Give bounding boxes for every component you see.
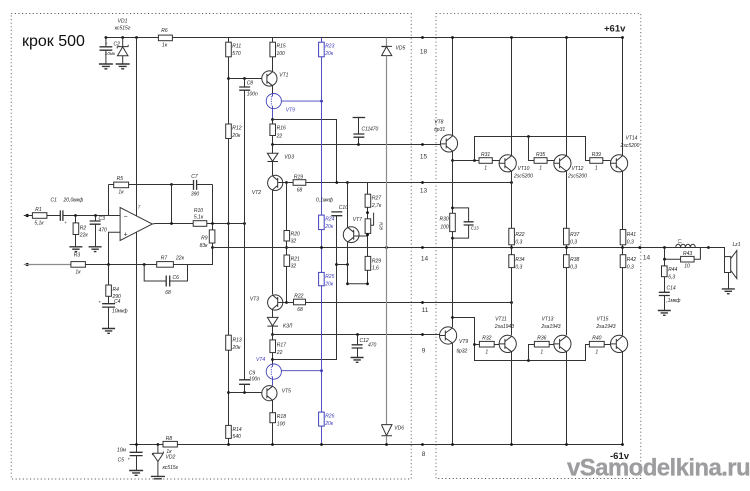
resistor R6 1к (horizontal, in +supply feed) [158, 35, 172, 41]
resistor R25 20к (blue) [319, 272, 325, 285]
svg-text:R7: R7 [161, 255, 168, 261]
svg-text:20,0мкф: 20,0мкф [63, 198, 85, 204]
speaker Lz1 [709, 248, 725, 257]
svg-text:570: 570 [232, 51, 241, 57]
resistor R35 1 [534, 158, 547, 164]
node: left end of output rail / R9 bottom [211, 246, 214, 249]
ground under speaker [722, 289, 735, 294]
svg-text:100: 100 [277, 421, 286, 427]
wire: row 9 (to VT9 tip32 base) [273, 334, 440, 336]
diode VD5 [386, 38, 388, 47]
svg-text:VT14: VT14 [626, 136, 638, 142]
transistor VT5 [262, 386, 277, 401]
transistor VT15 2sa1943 [611, 335, 628, 352]
resistor R22 0,3 [509, 228, 515, 245]
wire: C5 top lead [136, 445, 138, 453]
svg-text:R21: R21 [291, 256, 300, 262]
svg-text:10мкф: 10мкф [112, 309, 128, 315]
resistor R34 0,3 [511, 248, 513, 255]
svg-text:VT8: VT8 [434, 119, 443, 125]
resistor R43 10 (parallel with coil) [665, 248, 701, 260]
svg-text:R36: R36 [537, 336, 546, 342]
svg-text:C14: C14 [667, 285, 676, 291]
svg-text:R22: R22 [294, 294, 303, 300]
svg-text:2sc5200: 2sc5200 [513, 174, 533, 180]
wire: upper base-drive bus [453, 160, 480, 162]
resistor R23 20к (blue) [321, 38, 323, 43]
wire: op-amp output [152, 223, 193, 226]
node: C6 branch junction [143, 263, 146, 266]
svg-text:9: 9 [422, 348, 426, 355]
capacitor C3 470 (to ground) [95, 216, 97, 221]
svg-text:R15: R15 [277, 44, 286, 50]
capacitor C10 0,1мкф [336, 211, 338, 213]
ground under C5 [129, 471, 143, 476]
resistor R19 68 (row 13 feed) [287, 182, 294, 184]
ground under R2 [69, 247, 82, 252]
svg-text:R25: R25 [325, 274, 334, 280]
ground under C14 [658, 311, 671, 316]
transistor VT8 tip31 (upper driver) [452, 38, 454, 136]
capacitor C6 68 (parallel with R7) [144, 265, 187, 282]
resistor R5 1к (feedback) [109, 184, 172, 186]
svg-text:tip31: tip31 [434, 127, 445, 133]
nodes on output wire [170, 222, 173, 225]
svg-text:C10: C10 [339, 205, 348, 211]
svg-text:2sa1943: 2sa1943 [540, 324, 560, 330]
svg-text:R5: R5 [117, 176, 124, 182]
capacitor C12 470 (to ground) [357, 335, 359, 345]
svg-text:C3: C3 [99, 216, 106, 222]
ground under C3 [89, 247, 102, 252]
node: VT1 base junction [227, 77, 230, 80]
svg-text:5,1к: 5,1к [34, 220, 44, 226]
resistor R32 1 [479, 341, 494, 347]
wire: VT1 base [229, 78, 262, 80]
wire: row 15 (to VT8 base) [273, 144, 441, 146]
svg-text:VD1: VD1 [118, 19, 128, 25]
resistor R14 540 [226, 425, 232, 438]
svg-text:R2: R2 [80, 225, 87, 231]
trimmer R28 [365, 219, 371, 234]
svg-text:1: 1 [595, 349, 598, 355]
wire: from R17 node right to C10 column [273, 265, 337, 360]
node: + input junction [107, 263, 110, 266]
svg-text:R42: R42 [627, 257, 636, 263]
svg-text:22: 22 [276, 134, 283, 140]
transistor VT9 (blue, second channel) [266, 94, 281, 109]
resistor R41 0,3 [620, 230, 626, 245]
wire: -61v bottom rail (row 8) [130, 444, 623, 446]
svg-text:R43: R43 [683, 251, 692, 257]
svg-text:VD2: VD2 [166, 455, 176, 461]
transistor VT12 2sc5200 [566, 38, 568, 156]
wire: VT5 base from R13/R14 tap through C9 [229, 392, 262, 394]
resistor R37 0,3 [564, 228, 570, 245]
capacitor C11 470 (bootstrap) [353, 117, 366, 119]
svg-text:+: + [64, 220, 67, 225]
svg-text:R8: R8 [166, 436, 173, 442]
resistor R9 83к (down to output rail) [212, 224, 214, 230]
svg-text:68: 68 [165, 290, 171, 296]
ground under C2 [99, 64, 113, 69]
resistor R16 22 [272, 120, 274, 125]
svg-text:C4: C4 [114, 299, 121, 305]
resistor R12 20к [226, 124, 232, 139]
svg-text:VD3: VD3 [284, 154, 294, 160]
svg-text:R6: R6 [161, 28, 168, 34]
resistor R44 6,3 (Zobel) [664, 259, 666, 266]
svg-text:20к: 20к [324, 224, 334, 230]
svg-text:R16: R16 [277, 126, 286, 132]
diode КЗЛ [267, 317, 278, 326]
svg-text:vSamodelkina.ru: vSamodelkina.ru [567, 455, 750, 482]
svg-text:100n: 100n [247, 91, 258, 97]
wire: feedback riser from inverting input [108, 185, 110, 216]
resistor R26 20к (blue) [319, 412, 325, 426]
svg-text:0,3: 0,3 [570, 265, 577, 271]
svg-text:1: 1 [484, 166, 487, 172]
node: VT9 emitter / R16 top [271, 118, 274, 121]
svg-text:C7: C7 [191, 174, 198, 180]
svg-text:10: 10 [684, 264, 690, 270]
svg-text:−: − [124, 213, 128, 220]
output stage dashed enclosure (right box) [436, 14, 641, 479]
svg-text:2sc5200: 2sc5200 [567, 174, 587, 180]
svg-text:R18: R18 [277, 414, 286, 420]
svg-text:1: 1 [485, 349, 488, 355]
svg-text:VD5: VD5 [396, 45, 406, 51]
svg-text:R3: R3 [74, 253, 81, 259]
resistor R42 0,3 [622, 248, 624, 255]
wire: VT7 collector from row 13 [347, 183, 349, 228]
resistor R27 2,7к [348, 183, 368, 195]
svg-text:22к: 22к [175, 255, 185, 261]
svg-text:1: 1 [540, 349, 543, 355]
svg-text:1: 1 [539, 166, 542, 172]
svg-text:14: 14 [643, 255, 651, 262]
svg-text:VT3: VT3 [250, 296, 259, 302]
svg-text:83к: 83к [200, 243, 209, 249]
svg-text:390: 390 [191, 191, 200, 197]
svg-text:R30: R30 [440, 216, 449, 222]
svg-text:R37: R37 [570, 232, 579, 238]
resistor R4 290 (from + input node down) [108, 265, 110, 286]
svg-text:1,6: 1,6 [372, 266, 379, 272]
transistor VT2 [268, 175, 283, 190]
svg-text:+61v: +61v [604, 24, 626, 35]
svg-text:20к: 20к [324, 51, 334, 57]
wire: bootstrap from VT9 emitter to C10 column [273, 120, 337, 183]
svg-text:VT4: VT4 [256, 357, 265, 363]
wire: op-amp +supply column (pin 7) [136, 38, 138, 217]
svg-text:20к: 20к [232, 345, 242, 351]
transistor VT7 (bias multiplier) [343, 227, 359, 243]
svg-text:2sa1943: 2sa1943 [494, 324, 514, 330]
svg-text:VT7: VT7 [353, 217, 362, 223]
svg-text:R10: R10 [194, 208, 203, 214]
svg-text:20к: 20к [231, 133, 241, 139]
wire: +61v top rail (row 18) [106, 37, 623, 39]
svg-text:68: 68 [297, 187, 303, 193]
wire: row 14 main output rail [213, 247, 709, 249]
svg-text:0,3: 0,3 [515, 265, 522, 271]
svg-text:R12: R12 [232, 126, 241, 132]
resistor R39 1 [590, 158, 603, 164]
transistor VT1 [262, 71, 277, 86]
input terminal IN (upper) [26, 214, 29, 217]
wire: C10 column to VT7 emitter net [336, 216, 338, 265]
resistor R10 5,1к (series from op-amp output) [193, 221, 207, 227]
svg-text:R40: R40 [592, 336, 601, 342]
node: VT5 base tap [227, 391, 230, 394]
svg-text:C8: C8 [247, 80, 254, 86]
svg-text:VT11: VT11 [495, 316, 507, 322]
svg-text:VT9: VT9 [459, 339, 468, 345]
svg-text:VT9: VT9 [286, 107, 295, 113]
resistor R22 68 (row 11 feed) [287, 302, 294, 304]
wire: row 13 [306, 182, 512, 184]
svg-text:C6: C6 [173, 275, 180, 281]
node: VT9 emitter tap [451, 316, 454, 319]
svg-text:C5: C5 [118, 458, 125, 464]
resistor R20 32 [284, 231, 290, 242]
svg-text:VD6: VD6 [394, 426, 404, 432]
zener VD2 кс515г (on negative supply) [157, 443, 160, 446]
svg-text:tip32: tip32 [457, 348, 468, 354]
node: output rail exits right box [638, 246, 641, 249]
node: R17 bottom / VT4 collector / VT7 net [271, 358, 274, 361]
svg-text:0,1мкф: 0,1мкф [316, 198, 334, 204]
svg-text:R23: R23 [325, 44, 334, 50]
svg-text:5,1к: 5,1к [194, 215, 204, 221]
svg-text:VT13: VT13 [542, 316, 554, 322]
ground under VD2 [151, 476, 165, 478]
resistor R2 22к (to ground) [75, 216, 77, 223]
svg-text:кс515г: кс515г [115, 26, 131, 32]
svg-text:2sc5200: 2sc5200 [620, 143, 640, 149]
svg-text:VT10: VT10 [518, 166, 530, 172]
svg-text:1к: 1к [166, 449, 172, 455]
svg-text:R13: R13 [233, 338, 242, 344]
svg-text:11: 11 [422, 307, 429, 314]
svg-text:+: + [98, 300, 101, 305]
node: VT2 base / R19 / R20 [285, 181, 288, 184]
resistor R11 570 [228, 38, 230, 43]
svg-text:+: + [128, 457, 131, 462]
svg-text:C9: C9 [249, 370, 256, 376]
svg-text:крок 500: крок 500 [22, 33, 85, 50]
wire: VD5/VD6 bootstrap column (gray) [386, 56, 388, 425]
svg-text:R32: R32 [482, 336, 491, 342]
transistor VT9 tip32 (lower driver) [440, 327, 457, 344]
op-amp U1 [120, 208, 152, 241]
svg-text:+: + [124, 232, 128, 239]
resistor R1 5,1к [32, 213, 47, 219]
svg-text:R20: R20 [291, 231, 300, 237]
svg-text:6,3: 6,3 [668, 274, 675, 280]
svg-text:Lz1: Lz1 [733, 242, 741, 248]
wire: op-amp output bus column (C8 to C9) [244, 90, 246, 380]
svg-text:VT5: VT5 [282, 389, 291, 395]
svg-text:1: 1 [595, 166, 598, 172]
svg-text:100: 100 [440, 224, 449, 230]
transistor VT4 (blue, second channel) [266, 364, 281, 379]
svg-text:R4: R4 [113, 287, 120, 293]
node at R2 [74, 214, 77, 217]
resistor R18 100 [270, 413, 276, 423]
svg-text:13: 13 [420, 188, 428, 195]
resistor R15 100 [272, 38, 274, 43]
wire: op-amp -supply column (pin 4) down to negative rail [136, 233, 138, 445]
capacitor C2 10мк (polarized, to ground) [105, 38, 107, 47]
svg-text:VT15: VT15 [597, 316, 609, 322]
svg-text:20к: 20к [324, 421, 334, 427]
node: C8 top [243, 77, 246, 80]
svg-text:100n: 100n [249, 377, 260, 383]
resistor R36 1 [534, 341, 549, 347]
node: VT3 base / R21 / R22 [285, 301, 288, 304]
input terminal (lower, signal return) [26, 263, 29, 266]
resistor R30 100 + capacitor C13 (bias network) [452, 161, 454, 214]
resistor R40 1 [589, 341, 604, 347]
diode VD3 [272, 145, 274, 154]
svg-text:L1: L1 [678, 239, 683, 244]
svg-text:C1: C1 [51, 198, 58, 204]
resistor R13 20к [226, 335, 232, 350]
wire: VT7 emitter down to R29 bottom [347, 242, 349, 284]
svg-text:R1: R1 [35, 207, 42, 213]
svg-text:R41: R41 [627, 232, 636, 238]
svg-text:20к: 20к [324, 282, 334, 288]
wire: stub from output rail down to lower return rail [188, 248, 213, 265]
wire: op-amp noninverting input from lower rail [109, 232, 121, 264]
transistor VT14 2sc5200 [622, 38, 624, 156]
wire: lower base-drive bus [453, 318, 590, 361]
svg-text:R22: R22 [515, 232, 524, 238]
svg-text:10мк: 10мк [105, 51, 116, 56]
resistor R29 1,6 [365, 256, 371, 270]
main amplifier dashed enclosure (left box) [11, 14, 411, 480]
svg-text:100: 100 [277, 51, 286, 57]
svg-text:+: + [105, 41, 108, 46]
transistor VT10 2sc5200 [511, 38, 513, 156]
svg-text:8: 8 [422, 451, 426, 458]
resistor R31 1 [479, 158, 492, 164]
svg-text:0,3: 0,3 [570, 239, 577, 245]
wire: R20/R21 bias column [286, 183, 288, 231]
diode VD6 [381, 425, 392, 436]
capacitor C14 ,1мкф (Zobel) [659, 292, 670, 295]
capacitor C9 100n [243, 391, 246, 394]
svg-text:VT2: VT2 [252, 190, 261, 196]
svg-text:R38: R38 [570, 257, 579, 263]
svg-text:R9: R9 [201, 236, 208, 242]
svg-text:540: 540 [233, 434, 242, 440]
transistor VT13 2sa1943 [554, 335, 571, 352]
svg-text:32: 32 [291, 238, 297, 244]
svg-text:470: 470 [370, 126, 379, 132]
resistor R21 32 [284, 255, 290, 266]
node at C3 [94, 214, 97, 217]
svg-text:22: 22 [276, 350, 283, 356]
svg-text:0,3: 0,3 [627, 265, 634, 271]
capacitor C4 10мкф (polarized, to ground) [102, 304, 115, 307]
svg-text:R17: R17 [277, 342, 286, 348]
svg-text:14: 14 [421, 256, 429, 263]
svg-text:R14: R14 [233, 427, 242, 433]
svg-text:C13: C13 [471, 226, 479, 231]
svg-text:R35: R35 [536, 152, 545, 158]
svg-text:10м: 10м [117, 448, 127, 454]
ground under C12 [351, 358, 364, 363]
resistor R24 20к (blue) [319, 215, 325, 230]
svg-text:470: 470 [99, 228, 108, 234]
node: VT8 emitter [451, 159, 454, 162]
svg-text:R39: R39 [592, 152, 601, 158]
node: feedback/output column [170, 183, 173, 186]
ground under C4 [102, 329, 115, 334]
svg-text:R28: R28 [379, 222, 384, 230]
svg-text:0,3: 0,3 [515, 239, 522, 245]
svg-text:470: 470 [368, 343, 377, 349]
svg-text:22к: 22к [79, 232, 89, 238]
svg-text:R24: R24 [325, 217, 334, 223]
inductor L1 (output coil) [676, 244, 696, 247]
resistor R7 22к [157, 262, 174, 268]
svg-text:2sa1943: 2sa1943 [595, 324, 615, 330]
transistor VT11 2sa1943 [499, 335, 516, 352]
wire: row 11 [306, 302, 512, 304]
svg-text:R31: R31 [481, 152, 490, 158]
svg-text:1к: 1к [75, 269, 81, 275]
node: КЗЛ bottom / row 9 [271, 333, 274, 336]
svg-text:кс515г: кс515г [163, 465, 179, 471]
svg-text:VT1: VT1 [279, 72, 288, 78]
svg-text:,1мкф: ,1мкф [666, 298, 681, 304]
svg-text:1к: 1к [118, 190, 124, 196]
negative rail terminal / row 8 [421, 443, 424, 446]
resistor R38 0,3 [566, 248, 568, 255]
svg-text:1к: 1к [162, 43, 168, 49]
svg-text:R44: R44 [668, 267, 677, 273]
svg-text:68: 68 [297, 307, 303, 313]
svg-text:КЗЛ: КЗЛ [283, 323, 293, 329]
svg-text:0,3: 0,3 [627, 239, 634, 245]
svg-text:18: 18 [420, 49, 428, 56]
resistor R17 22 [272, 335, 274, 340]
resistor R8 1к (in negative rail) [163, 441, 177, 447]
svg-text:32: 32 [291, 263, 297, 269]
svg-text:VT12: VT12 [572, 166, 584, 172]
svg-text:R27: R27 [372, 196, 381, 202]
transistor VT3 [268, 295, 283, 310]
svg-text:R34: R34 [515, 257, 524, 263]
capacitor C7 390 (feedback) [172, 184, 213, 186]
svg-text:15: 15 [420, 154, 428, 161]
svg-text:R29: R29 [372, 258, 381, 264]
svg-text:R26: R26 [325, 414, 334, 420]
capacitor C8 100n [244, 79, 246, 87]
svg-text:2,7к: 2,7к [371, 203, 382, 209]
svg-text:R19: R19 [294, 175, 303, 181]
ground under VD1 [116, 64, 130, 69]
resistor R3 1к (in return line) [71, 262, 86, 268]
svg-text:R11: R11 [232, 44, 241, 50]
node: rail junctions [105, 36, 108, 39]
